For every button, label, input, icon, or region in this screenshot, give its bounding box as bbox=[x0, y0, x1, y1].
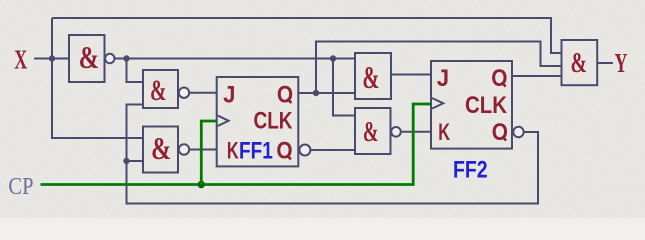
flip-flop FF2 pin label CLK bbox=[465, 92, 508, 119]
node G1 output junction B bbox=[330, 55, 336, 61]
flip-flop FF1 box bbox=[217, 77, 299, 166]
wire X riser to top rail bbox=[51, 18, 53, 59]
flip-flop FF2 pin label Q-bar bbox=[492, 119, 508, 146]
NAND gate G2 output bubble bbox=[179, 88, 189, 98]
NAND gate G3 output bubble bbox=[179, 144, 189, 154]
node G1 output junction A bbox=[123, 55, 129, 61]
NAND gate G5 output bubble bbox=[391, 127, 401, 137]
svg-text:Y: Y bbox=[615, 48, 628, 78]
wire G6 output to Y bbox=[597, 62, 613, 64]
AND gate G4 symbol & bbox=[362, 59, 379, 95]
flip-flop FF2 box bbox=[431, 61, 512, 149]
wire node B to gate G5 input 1 bbox=[333, 59, 355, 116]
node CP junction bbox=[198, 181, 205, 188]
svg-text:O: O bbox=[491, 65, 507, 92]
input label X bbox=[14, 44, 27, 74]
flip-flop FF2 pin label J bbox=[437, 65, 449, 92]
svg-text:FF2: FF2 bbox=[453, 156, 488, 183]
flip-flop FF1 pin label J bbox=[223, 81, 235, 108]
svg-text:K: K bbox=[438, 119, 450, 146]
flip-flop FF1 Q-bar bubble bbox=[299, 145, 310, 156]
NAND gate G1 output bubble bbox=[105, 54, 114, 63]
wire feedback from FF2 Q-bar around bottom to gate G2 input 2 bbox=[127, 105, 539, 204]
svg-text:&: & bbox=[150, 74, 167, 107]
wire X input to gate G1 bbox=[34, 58, 69, 60]
NAND gate G2 box bbox=[143, 70, 178, 108]
svg-text:X: X bbox=[14, 44, 27, 74]
flip-flop FF2 clock triangle bbox=[432, 98, 443, 109]
svg-text:&: & bbox=[570, 47, 587, 79]
node X junction bbox=[49, 55, 55, 61]
flip-flop FF2 pin label Q bbox=[491, 65, 507, 92]
flip-flop FF2 name label bbox=[453, 156, 488, 183]
svg-text:&: & bbox=[363, 117, 379, 148]
svg-text:&: & bbox=[362, 59, 379, 95]
svg-text:J: J bbox=[437, 65, 449, 92]
flip-flop FF1 pin label Q bbox=[277, 81, 293, 108]
clock input label CP bbox=[8, 174, 33, 200]
svg-text:J: J bbox=[223, 81, 235, 108]
flip-flop FF1 name label bbox=[239, 138, 273, 165]
svg-text:O: O bbox=[492, 119, 508, 146]
wire FF1 Q-bar to gate G5 input 2 bbox=[310, 149, 355, 151]
svg-text:K: K bbox=[227, 138, 239, 165]
flip-flop FF2 Q-bar bubble bbox=[513, 127, 523, 137]
wire FF2 Q output to gate G6 input 3 bbox=[512, 75, 562, 77]
svg-text:O: O bbox=[276, 138, 292, 165]
wire G5 output to FF2 K input bbox=[401, 131, 431, 133]
svg-text:CLK: CLK bbox=[254, 107, 294, 134]
flip-flop FF2 pin label K bbox=[438, 119, 450, 146]
svg-text:FF1: FF1 bbox=[239, 138, 273, 165]
wire node D riser to gate G6 input 2 bbox=[316, 42, 562, 94]
svg-text:CLK: CLK bbox=[465, 92, 508, 119]
wire node A to gate G2 input 1 bbox=[127, 59, 144, 83]
AND gate G6 box bbox=[562, 40, 598, 85]
NAND gate G2 symbol & bbox=[150, 74, 167, 107]
svg-text:CP: CP bbox=[8, 174, 33, 200]
AND gate G4 box bbox=[355, 53, 391, 99]
flip-flop FF1 pin label Q-bar bbox=[276, 138, 292, 165]
svg-text:&: & bbox=[151, 130, 171, 166]
output label Y bbox=[615, 48, 628, 78]
svg-text:O: O bbox=[277, 81, 293, 108]
flip-flop FF1 pin label CLK bbox=[254, 107, 294, 134]
wire node C to gate G3 input 2 bbox=[127, 160, 144, 162]
wire G3 output to FF1 K input bbox=[189, 149, 217, 151]
NAND gate G1 box bbox=[69, 35, 105, 82]
NAND gate G5 box bbox=[355, 108, 391, 154]
wire X down-feed to gate G3 input 1 bbox=[52, 59, 143, 139]
NAND gate G3 symbol & bbox=[151, 130, 171, 166]
svg-text:&: & bbox=[79, 39, 100, 75]
flip-flop FF1 pin label K bbox=[227, 138, 239, 165]
wire FF1 Q output to gate G4 input 2 bbox=[298, 92, 355, 94]
NAND gate G5 symbol & bbox=[363, 117, 379, 148]
flip-flop FF1 clock triangle bbox=[218, 116, 229, 127]
wire G4 output to FF2 J input bbox=[391, 74, 431, 76]
NAND gate G1 symbol & bbox=[79, 39, 100, 75]
wire G1 output to gate G4 input 1 bbox=[115, 58, 356, 60]
wire CP clock rail to FF2 clock bbox=[41, 104, 432, 185]
AND gate G6 symbol & bbox=[570, 47, 587, 79]
node FF1 Q junction D bbox=[313, 90, 319, 96]
NAND gate G3 box bbox=[143, 127, 178, 173]
node feedback junction C bbox=[123, 158, 129, 164]
wire G2 output to FF1 J input bbox=[189, 92, 217, 94]
wire top rail X to gate G6 input 1 bbox=[52, 18, 562, 53]
wire CP branch to FF1 clock bbox=[201, 121, 216, 185]
